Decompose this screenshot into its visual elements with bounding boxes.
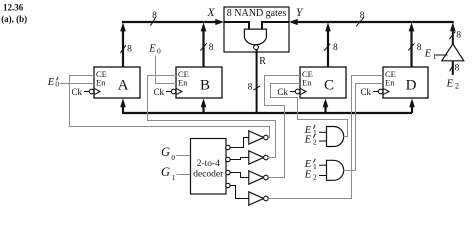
wire net: inverter1 to CE of A — [70, 76, 270, 138]
svg-text:D: D — [406, 78, 417, 94]
svg-text:1: 1 — [313, 128, 317, 137]
decoder output bubble 0 — [226, 145, 230, 149]
svg-text:En: En — [302, 78, 312, 88]
svg-text:8: 8 — [417, 43, 422, 53]
wire: node R vertical to bottom bus — [256, 50, 258, 113]
register D clock input — [361, 87, 390, 97]
gate: NAND (downward) body — [244, 29, 266, 45]
E0 input label — [148, 43, 161, 55]
wire net: inverter2 to CE of B — [148, 76, 276, 158]
wire: decoder out0 to inverter 1 — [230, 138, 249, 148]
svg-text:8: 8 — [209, 43, 214, 53]
svg-text:G: G — [161, 145, 170, 159]
register C clock input — [278, 87, 307, 97]
bus width slash 8 on R wire — [248, 83, 261, 93]
inverter 2 — [249, 151, 268, 164]
svg-text:decoder: decoder — [193, 170, 224, 180]
svg-text:E: E — [304, 170, 312, 181]
title label 12.36 (a),(b) — [1, 3, 27, 25]
E1 enable label and wire — [424, 49, 448, 61]
svg-text:8: 8 — [248, 83, 253, 93]
svg-text:A: A — [118, 78, 129, 94]
svg-text:E: E — [47, 77, 55, 88]
svg-text:G: G — [161, 165, 170, 179]
svg-text:1: 1 — [433, 52, 437, 61]
svg-text:R: R — [259, 56, 266, 67]
svg-text:Ck: Ck — [72, 87, 83, 97]
wire net: inverter4 to CE of D — [268, 76, 383, 199]
decoder U7: 2-to-4 decoder box — [191, 139, 227, 195]
G0 input label and wire — [161, 145, 191, 162]
svg-text:12.36: 12.36 — [3, 3, 24, 13]
wire net: U9 output to En of D — [344, 84, 383, 171]
wire: E0 to En of B — [156, 56, 177, 84]
svg-text:Ck: Ck — [361, 87, 372, 97]
svg-text:B: B — [200, 78, 210, 94]
register A clock input (bubble + edge triangle) — [72, 87, 101, 97]
svg-text:En: En — [385, 78, 395, 88]
U9 input E2 label and stub — [304, 170, 327, 182]
wire: register D input from bottom bus — [409, 98, 415, 113]
decoder output bubble 2 — [226, 170, 230, 174]
svg-text:0: 0 — [171, 153, 175, 162]
E'0 input label — [47, 77, 60, 89]
wire: top bus X segment — [122, 19, 224, 25]
svg-text:8: 8 — [456, 31, 461, 41]
svg-text:(a), (b): (a), (b) — [1, 14, 27, 24]
svg-text:8: 8 — [360, 11, 365, 21]
svg-text:8 NAND gates: 8 NAND gates — [227, 8, 287, 19]
svg-text:E: E — [446, 77, 454, 89]
wire net: U8 output to En of C — [271, 84, 348, 137]
wire: top bus Y segment — [289, 19, 454, 25]
svg-text:2: 2 — [313, 173, 317, 182]
wire: NAND left input stub — [224, 22, 249, 29]
U8 input E'1 label and stub — [304, 125, 327, 137]
G1 input label and wire — [161, 165, 191, 182]
U8 input E'2 label and stub — [304, 134, 327, 146]
wire: register C output to bus (8) — [324, 22, 338, 67]
svg-text:E: E — [148, 43, 156, 54]
wire: register D output to bus (8) — [408, 22, 422, 67]
U5: 8 NAND gates block — [224, 7, 289, 52]
svg-text:2: 2 — [455, 82, 459, 91]
svg-text:En: En — [178, 78, 188, 88]
wire: register B output to bus (8) — [200, 22, 213, 67]
wire: register A input from bottom bus — [120, 98, 126, 113]
svg-text:C: C — [324, 78, 334, 94]
inverter 3 — [249, 171, 268, 184]
tri-state buffer U6 (E1 enable) — [442, 22, 464, 60]
inverter 1 — [249, 131, 268, 144]
svg-text:Ck: Ck — [154, 87, 165, 97]
svg-text:E: E — [424, 49, 432, 60]
svg-text:E: E — [304, 159, 312, 170]
svg-text:0: 0 — [55, 79, 59, 88]
NAND output bubble — [254, 45, 259, 50]
wire: NAND right input stub — [262, 22, 289, 29]
wire: E2 port below buffer (8) — [446, 61, 460, 91]
svg-text:Ck: Ck — [278, 87, 289, 97]
svg-text:8: 8 — [152, 11, 157, 21]
svg-text:En: En — [96, 78, 106, 88]
decoder output bubble 1 — [226, 157, 230, 161]
wire: decoder out3 to inverter 4 — [230, 186, 249, 199]
register A box — [94, 67, 140, 98]
decoder output bubble 3 — [226, 183, 230, 187]
svg-text:1: 1 — [172, 173, 176, 182]
svg-text:X: X — [207, 7, 216, 19]
wire: bottom input bus — [122, 112, 412, 114]
wire net: inverter3 to CE of C — [265, 76, 301, 178]
register B box — [176, 67, 222, 98]
register B clock input — [154, 87, 183, 97]
bus width slash 8 on Y segment — [356, 11, 365, 26]
wire: register A output to bus (8) — [120, 22, 132, 67]
svg-text:8: 8 — [127, 45, 132, 55]
svg-text:0: 0 — [157, 47, 161, 56]
svg-text:8: 8 — [333, 43, 338, 53]
register C box — [300, 67, 346, 98]
AND gate U9 (bottom) — [327, 160, 344, 180]
wire: decoder out1 to inverter 2 — [230, 158, 249, 160]
svg-text:1: 1 — [313, 162, 317, 171]
svg-text:2-to-4: 2-to-4 — [197, 159, 220, 169]
wire: decoder out2 to inverter 3 — [230, 173, 249, 178]
svg-text:2: 2 — [313, 138, 317, 147]
AND gate U8 (top) — [327, 127, 344, 147]
wire: register B input from bottom bus — [201, 98, 207, 113]
wire: E'0 to En of A — [60, 83, 94, 85]
wire: register C input from bottom bus — [323, 98, 329, 113]
inverter 4 — [249, 192, 268, 205]
U9 input E'1 label and stub — [304, 159, 327, 171]
svg-text:8: 8 — [455, 64, 460, 74]
svg-text:E: E — [304, 134, 312, 145]
bus width slash 8 on X segment — [150, 11, 157, 26]
register D box — [383, 67, 428, 98]
